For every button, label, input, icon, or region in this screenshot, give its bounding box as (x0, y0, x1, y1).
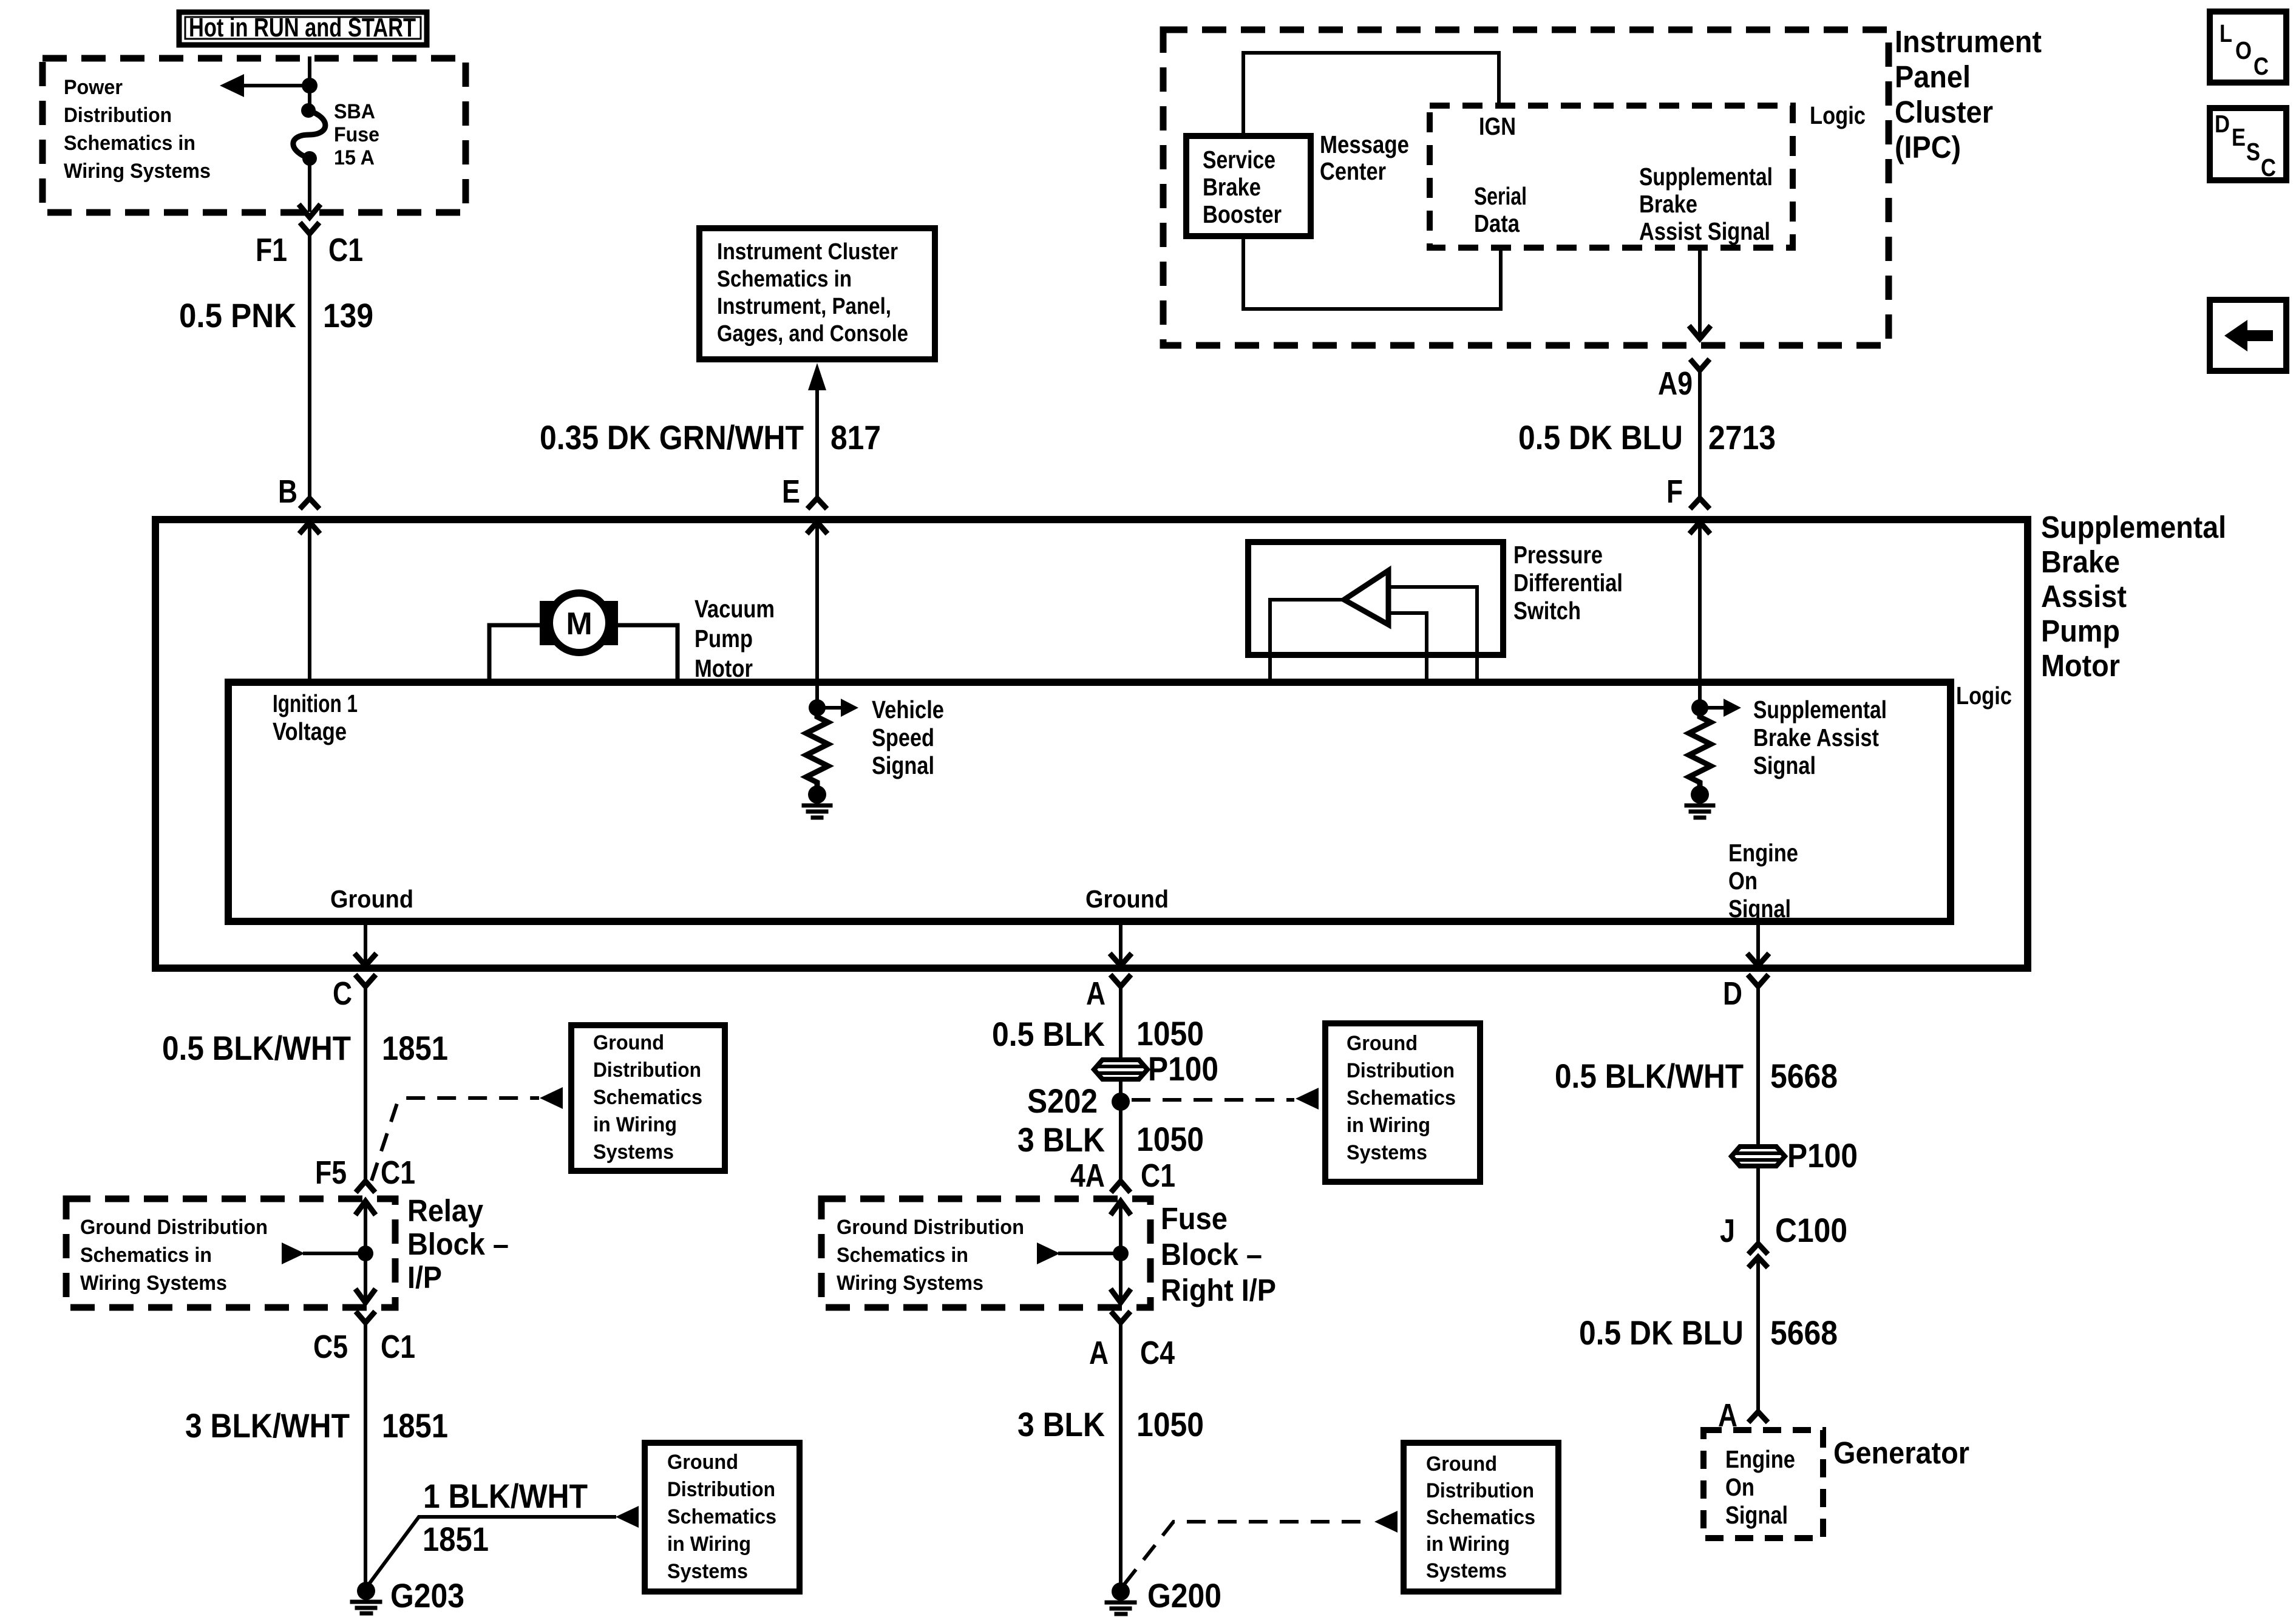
svg-text:Schematics: Schematics (593, 1086, 702, 1109)
resistor: vehicle speed pulldown (806, 708, 828, 785)
svg-text:Vehicle: Vehicle (872, 696, 944, 724)
svg-text:Ground: Ground (667, 1451, 738, 1474)
wire: pass-through in relay block (arrows both ends) (357, 1201, 374, 1303)
svg-text:0.5 BLK/WHT: 0.5 BLK/WHT (162, 1029, 351, 1067)
svg-text:3 BLK: 3 BLK (1017, 1120, 1105, 1159)
node: vehicle speed signal junction (809, 699, 826, 716)
note: ground distribution schematics 3 (1347, 1032, 1456, 1164)
wire: motor right lead (618, 625, 678, 682)
svg-text:Ground Distribution: Ground Distribution (80, 1216, 268, 1239)
pump motor logic box (228, 682, 1951, 921)
arrow: fuse output exits block (301, 206, 319, 217)
svg-text:C5: C5 (313, 1329, 348, 1365)
svg-text:P100: P100 (1787, 1136, 1858, 1175)
connector chevron at generator pin A (1750, 1412, 1766, 1420)
svg-text:P100: P100 (1148, 1049, 1218, 1088)
svg-text:Pressure: Pressure (1513, 541, 1603, 569)
label: Vehicle Speed Signal (872, 696, 944, 779)
svg-text:Wiring Systems: Wiring Systems (64, 160, 211, 183)
svg-text:I/P: I/P (407, 1260, 442, 1295)
svg-text:Supplemental: Supplemental (2041, 510, 2226, 544)
DESC nav box (2210, 108, 2286, 181)
connector half A9 (Y symbol) (1692, 361, 1708, 370)
connector half F1/C1 (Y symbol) (302, 225, 318, 234)
note: ground distribution schematics 4 (1426, 1453, 1535, 1582)
svg-text:Engine: Engine (1728, 839, 1798, 867)
svg-text:in Wiring: in Wiring (593, 1113, 677, 1136)
svg-text:4A: 4A (1070, 1158, 1105, 1194)
svg-text:C1: C1 (381, 1154, 415, 1191)
svg-text:Schematics in: Schematics in (837, 1244, 968, 1267)
wire: 1 BLK/WHT 1851 branch to ground distribution (368, 1517, 614, 1585)
node: relay block tap junction (358, 1246, 373, 1261)
svg-text:J: J (1720, 1213, 1735, 1249)
svg-text:C1: C1 (328, 232, 363, 268)
svg-text:Pump: Pump (2041, 614, 2120, 648)
connector chevron at pin A (1112, 977, 1129, 986)
svg-text:M: M (566, 606, 592, 642)
svg-text:Ground: Ground (1347, 1032, 1418, 1055)
wire: fuse output down to block edge (308, 158, 311, 210)
svg-text:C: C (2254, 52, 2269, 80)
note: instrument cluster schematics (717, 239, 908, 347)
svg-text:Wiring Systems: Wiring Systems (80, 1272, 227, 1295)
connector chevron below relay block (C5) (358, 1314, 373, 1323)
svg-text:in Wiring: in Wiring (667, 1533, 751, 1556)
arrow: reference points back to wire (G203 branch) (616, 1506, 639, 1528)
back arrow nav box (2210, 300, 2286, 371)
svg-text:Distribution: Distribution (64, 104, 172, 127)
svg-text:Ground: Ground (1085, 885, 1169, 913)
wire: 0.5 PNK 139 vertical to pump motor pin B (308, 240, 311, 498)
relay block I/P dashed box (66, 1199, 395, 1307)
svg-text:1 BLK/WHT: 1 BLK/WHT (423, 1477, 588, 1515)
svg-text:Data: Data (1474, 209, 1520, 237)
svg-text:Systems: Systems (593, 1141, 674, 1164)
svg-text:Brake: Brake (1203, 173, 1261, 201)
svg-text:Cluster: Cluster (1895, 95, 1993, 129)
svg-text:Instrument: Instrument (1895, 24, 2042, 59)
node: fuse block tap junction (1113, 1246, 1129, 1261)
arrow: ground distribution tap in fuse block (1037, 1242, 1121, 1264)
svg-text:Distribution: Distribution (593, 1059, 701, 1082)
svg-text:2713: 2713 (1708, 418, 1776, 456)
name: Pressure Differential Switch (1513, 541, 1623, 625)
wire: pass-through in fuse block (arrows both ends) (1112, 1201, 1129, 1303)
label: Engine On Signal (generator) (1725, 1445, 1795, 1529)
hot feed label box "Hot in RUN and START" (179, 12, 427, 45)
arrow: vehicle speed signal tap (817, 699, 858, 717)
dashed reference line to ground distribution note (G200) (1124, 1522, 1372, 1584)
svg-text:Power: Power (64, 76, 123, 99)
svg-text:Logic: Logic (1956, 682, 2012, 710)
svg-text:G203: G203 (390, 1576, 464, 1615)
switch triangle element (1344, 571, 1388, 625)
LOC nav box (2210, 12, 2286, 83)
wire: switch upper lead down to logic (1388, 587, 1477, 682)
svg-text:C1: C1 (381, 1329, 415, 1365)
svg-text:Ignition 1: Ignition 1 (273, 690, 358, 717)
arrow: reference points back to wire (C branch) (540, 1087, 563, 1109)
instrument cluster reference box (699, 228, 935, 359)
svg-text:Wiring Systems: Wiring Systems (837, 1272, 983, 1295)
arrow: wire 817 up into instrument cluster box (808, 363, 826, 498)
svg-text:L: L (2220, 19, 2232, 47)
svg-text:D: D (2215, 110, 2230, 138)
svg-text:Signal: Signal (1725, 1501, 1788, 1529)
name: Instrument Panel Cluster (IPC) (1895, 24, 2042, 164)
svg-text:C: C (333, 975, 352, 1012)
svg-text:15 A: 15 A (334, 146, 375, 169)
svg-text:SBA: SBA (334, 100, 375, 123)
svg-text:Motor: Motor (2041, 648, 2120, 683)
svg-text:Schematics in: Schematics in (64, 132, 195, 155)
svg-text:Brake Assist: Brake Assist (1753, 724, 1879, 751)
label: Message Center (1320, 131, 1409, 185)
wire: supplemental brake assist signal down inside IPC (1698, 248, 1702, 337)
connector chevron at pin F (1692, 498, 1708, 507)
wire: motor left lead (489, 625, 540, 682)
label: Vacuum Pump Motor (695, 595, 775, 682)
svg-text:G200: G200 (1147, 1576, 1221, 1615)
svg-text:Assist: Assist (2041, 579, 2127, 614)
svg-text:Schematics: Schematics (667, 1505, 776, 1528)
svg-text:Service: Service (1203, 146, 1275, 174)
wire: booster to IGN input (1243, 53, 1499, 136)
svg-text:0.35 DK GRN/WHT: 0.35 DK GRN/WHT (540, 418, 804, 456)
label: SBA Fuse 15 A (334, 100, 379, 169)
arrow: reference points back to wire (G200 branch) (1374, 1511, 1398, 1533)
fuse block underhood dashed box (42, 58, 466, 212)
svg-text:Systems: Systems (1426, 1559, 1507, 1582)
note: ground distribution schematics in fuse block (837, 1216, 1024, 1295)
wire: booster to serial data (1243, 236, 1501, 309)
IPC dashed box (Instrument Panel Cluster) (1163, 30, 1889, 345)
dashed reference line to ground distribution note (C branch) (372, 1098, 539, 1181)
svg-text:Fuse: Fuse (1161, 1201, 1228, 1236)
fuse block right I/P dashed box (821, 1199, 1150, 1307)
svg-text:Differential: Differential (1513, 569, 1623, 597)
svg-text:E: E (782, 473, 800, 510)
svg-text:Panel: Panel (1895, 59, 1971, 94)
ground G203 (352, 1582, 380, 1613)
service brake booster box (1186, 136, 1311, 236)
wire: 3 BLK/WHT 1851 down to G203 (364, 1329, 367, 1591)
svg-text:Signal: Signal (1728, 895, 1791, 923)
IPC logic dashed box (1430, 106, 1793, 248)
splice node S202 (1112, 1093, 1130, 1111)
note: ground distribution schematics in relay block (80, 1216, 268, 1295)
svg-text:1050: 1050 (1136, 1405, 1204, 1443)
svg-text:1050: 1050 (1136, 1014, 1204, 1053)
name: Supplemental Brake Assist Pump Motor (2041, 510, 2226, 683)
svg-text:On: On (1728, 867, 1758, 895)
svg-text:Signal: Signal (872, 751, 934, 779)
arrow: wire B entering pump motor box (301, 522, 318, 532)
wire: middle ground pin exits logic box (1112, 921, 1130, 966)
label: Supplemental Brake Assist Signal (IPC) (1639, 163, 1773, 245)
arrow: supplemental brake assist signal tap (1700, 699, 1741, 717)
connector chevron above fuse block right (4A) (1113, 1181, 1129, 1190)
ground: internal (vehicle speed) (804, 785, 830, 818)
arrow: signal leaves IPC (1691, 328, 1709, 339)
svg-text:Systems: Systems (667, 1560, 748, 1583)
note: ground distribution schematics 2 (667, 1451, 776, 1583)
svg-text:Center: Center (1320, 157, 1386, 185)
svg-text:On: On (1725, 1473, 1754, 1501)
svg-text:C1: C1 (1141, 1158, 1175, 1194)
label: Supplemental Brake Assist Signal (logic) (1753, 696, 1887, 779)
svg-text:Speed: Speed (872, 724, 934, 751)
svg-text:Distribution: Distribution (1426, 1479, 1534, 1502)
connector chevron at pin E (809, 498, 825, 507)
svg-text:E: E (2232, 123, 2246, 151)
arrow: ground distribution tap in relay block (282, 1242, 365, 1264)
resistor: brake assist signal pulldown (1689, 708, 1711, 785)
vacuum pump motor M symbol (540, 593, 618, 653)
svg-text:O: O (2235, 36, 2252, 64)
svg-text:A: A (1086, 975, 1106, 1012)
svg-text:F1: F1 (256, 232, 287, 268)
svg-text:IGN: IGN (1479, 112, 1516, 140)
svg-text:Schematics: Schematics (1347, 1086, 1456, 1110)
svg-text:D: D (1723, 975, 1742, 1012)
note: ground distribution schematics 1 (593, 1031, 702, 1164)
svg-text:Ground: Ground (593, 1031, 664, 1054)
svg-text:Supplemental: Supplemental (1639, 163, 1773, 191)
fuse SBA 15A symbol (293, 103, 325, 166)
svg-text:Ground: Ground (1426, 1453, 1497, 1476)
svg-text:S202: S202 (1027, 1082, 1098, 1120)
wire: 0.5 BLK/WHT 1851 down to relay block (364, 994, 367, 1179)
svg-text:Ground: Ground (330, 885, 413, 913)
wire: hot feed into fuse block (308, 58, 311, 108)
svg-text:Gages, and Console: Gages, and Console (717, 321, 908, 347)
wire: engine on signal pin exits logic box (1749, 921, 1767, 966)
grommet P100 (D branch) (1731, 1147, 1785, 1166)
svg-text:Hot in RUN and START: Hot in RUN and START (189, 13, 416, 42)
svg-text:C: C (2261, 154, 2276, 181)
svg-text:Supplemental: Supplemental (1753, 696, 1887, 724)
svg-text:F5: F5 (315, 1154, 347, 1191)
svg-text:Distribution: Distribution (1347, 1059, 1455, 1082)
ground distribution note box 3 (1325, 1023, 1480, 1182)
svg-text:0.5 BLK: 0.5 BLK (992, 1015, 1105, 1053)
ground distribution note box 1 (571, 1025, 725, 1171)
svg-text:Engine: Engine (1725, 1445, 1795, 1473)
svg-text:Systems: Systems (1347, 1141, 1427, 1164)
svg-text:Fuse: Fuse (334, 123, 379, 146)
label: Serial Data (1474, 182, 1527, 237)
arrow: wire F entering pump motor box (1691, 522, 1708, 532)
svg-text:B: B (278, 473, 297, 510)
wire: 3 BLK 1050 down to G200 (1119, 1329, 1123, 1592)
svg-text:Right I/P: Right I/P (1161, 1273, 1276, 1307)
svg-text:Assist Signal: Assist Signal (1639, 217, 1770, 245)
svg-text:3 BLK/WHT: 3 BLK/WHT (185, 1406, 350, 1445)
svg-text:817: 817 (830, 418, 881, 456)
svg-text:1851: 1851 (382, 1029, 448, 1067)
wire: P100 to C100 (1756, 1166, 1760, 1242)
node: supplemental brake assist signal junction (1691, 699, 1708, 716)
svg-text:Schematics: Schematics (1426, 1506, 1535, 1529)
svg-text:in Wiring: in Wiring (1426, 1533, 1510, 1556)
svg-text:0.5 BLK/WHT: 0.5 BLK/WHT (1555, 1057, 1744, 1095)
connector chevron below fuse block (A/C4) (1113, 1314, 1129, 1323)
svg-text:5668: 5668 (1770, 1057, 1838, 1095)
svg-text:Logic: Logic (1810, 101, 1866, 129)
svg-text:Vacuum: Vacuum (695, 595, 775, 623)
connector chevron at pin C (357, 977, 374, 986)
name: Fuse Block - Right I/P (1161, 1201, 1276, 1307)
svg-text:Motor: Motor (695, 654, 753, 682)
node: junction dot at fuse feed (302, 78, 318, 93)
svg-text:Booster: Booster (1203, 200, 1282, 228)
svg-text:A: A (1089, 1335, 1109, 1371)
wire: 0.5 BLK/WHT 5668 down to P100 (1756, 994, 1760, 1147)
wire: branch arrow to power distribution (220, 74, 310, 97)
label: Engine On Signal (logic) (1728, 839, 1798, 923)
supplemental brake assist pump motor outer box (155, 520, 2028, 968)
arrow: reference points back to splice S202 (1296, 1088, 1319, 1110)
ground distribution note box 2 (645, 1443, 800, 1592)
ground distribution note box 4 (1404, 1443, 1558, 1592)
svg-text:Block –: Block – (407, 1227, 509, 1261)
svg-text:0.5 DK BLU: 0.5 DK BLU (1579, 1314, 1744, 1352)
svg-text:1851: 1851 (382, 1406, 448, 1445)
generator dashed box (1703, 1430, 1823, 1538)
svg-text:Distribution: Distribution (667, 1478, 775, 1501)
svg-text:C4: C4 (1140, 1335, 1175, 1371)
svg-text:S: S (2246, 138, 2260, 166)
svg-text:F: F (1666, 473, 1683, 510)
svg-text:Switch: Switch (1513, 597, 1581, 625)
svg-text:Serial: Serial (1474, 182, 1527, 210)
svg-text:Voltage: Voltage (273, 717, 347, 745)
name: Relay Block - I/P (407, 1193, 509, 1295)
svg-text:Generator: Generator (1833, 1436, 1969, 1470)
svg-text:Pump: Pump (695, 625, 753, 653)
arrow: wire E entering pump motor box (809, 522, 826, 532)
wire: P100 to S202 to fuse block (1119, 1079, 1123, 1179)
svg-text:Signal: Signal (1753, 751, 1816, 779)
svg-text:A9: A9 (1658, 365, 1693, 402)
svg-text:(IPC): (IPC) (1895, 130, 1961, 164)
ground: internal (brake assist) (1686, 785, 1713, 818)
svg-text:1050: 1050 (1136, 1120, 1204, 1158)
ground G200 (1107, 1582, 1135, 1614)
wire: 0.5 BLK 1050 down to P100 (1119, 994, 1123, 1060)
wire: 0.5 DK BLU 5668 down to generator (1756, 1257, 1760, 1411)
wire: switch apex lead down to logic (1270, 600, 1344, 682)
svg-text:3 BLK: 3 BLK (1017, 1405, 1105, 1443)
svg-text:Brake: Brake (1639, 190, 1697, 218)
dashed reference line to ground distribution note (S202) (1132, 1098, 1294, 1102)
svg-text:Instrument Cluster: Instrument Cluster (717, 239, 898, 265)
svg-text:Relay: Relay (407, 1193, 484, 1228)
note: power distribution schematics in wiring systems (64, 76, 211, 183)
svg-text:Schematics in: Schematics in (80, 1244, 212, 1267)
svg-text:0.5 DK BLU: 0.5 DK BLU (1518, 418, 1683, 456)
pressure differential switch box (1248, 542, 1503, 655)
svg-text:C100: C100 (1775, 1211, 1847, 1249)
svg-text:Message: Message (1320, 131, 1409, 158)
svg-text:Ground Distribution: Ground Distribution (837, 1216, 1024, 1239)
svg-text:Block –: Block – (1161, 1237, 1262, 1272)
label: Ignition 1 Voltage (273, 690, 358, 745)
connector C100 (double chevron) (1750, 1244, 1766, 1266)
connector chevron above relay block (F5) (358, 1181, 373, 1190)
connector chevron at pin D (1750, 977, 1767, 986)
wire: switch lower lead down to logic (1388, 613, 1427, 682)
svg-text:Instrument, Panel,: Instrument, Panel, (717, 294, 891, 319)
svg-text:1851: 1851 (423, 1520, 489, 1558)
connector chevron at pin B (302, 498, 318, 507)
svg-text:139: 139 (323, 296, 373, 334)
svg-text:in Wiring: in Wiring (1347, 1114, 1430, 1137)
grommet P100 (A branch) (1094, 1060, 1147, 1079)
svg-text:5668: 5668 (1770, 1314, 1838, 1352)
svg-text:Schematics in: Schematics in (717, 266, 852, 292)
wire: 0.5 DK BLU 2713 down to pin F (1698, 377, 1702, 498)
wire: left ground pin exits logic box (356, 921, 375, 966)
note: service brake booster (1203, 146, 1282, 228)
svg-text:Brake: Brake (2041, 544, 2120, 579)
svg-text:0.5 PNK: 0.5 PNK (179, 296, 296, 334)
